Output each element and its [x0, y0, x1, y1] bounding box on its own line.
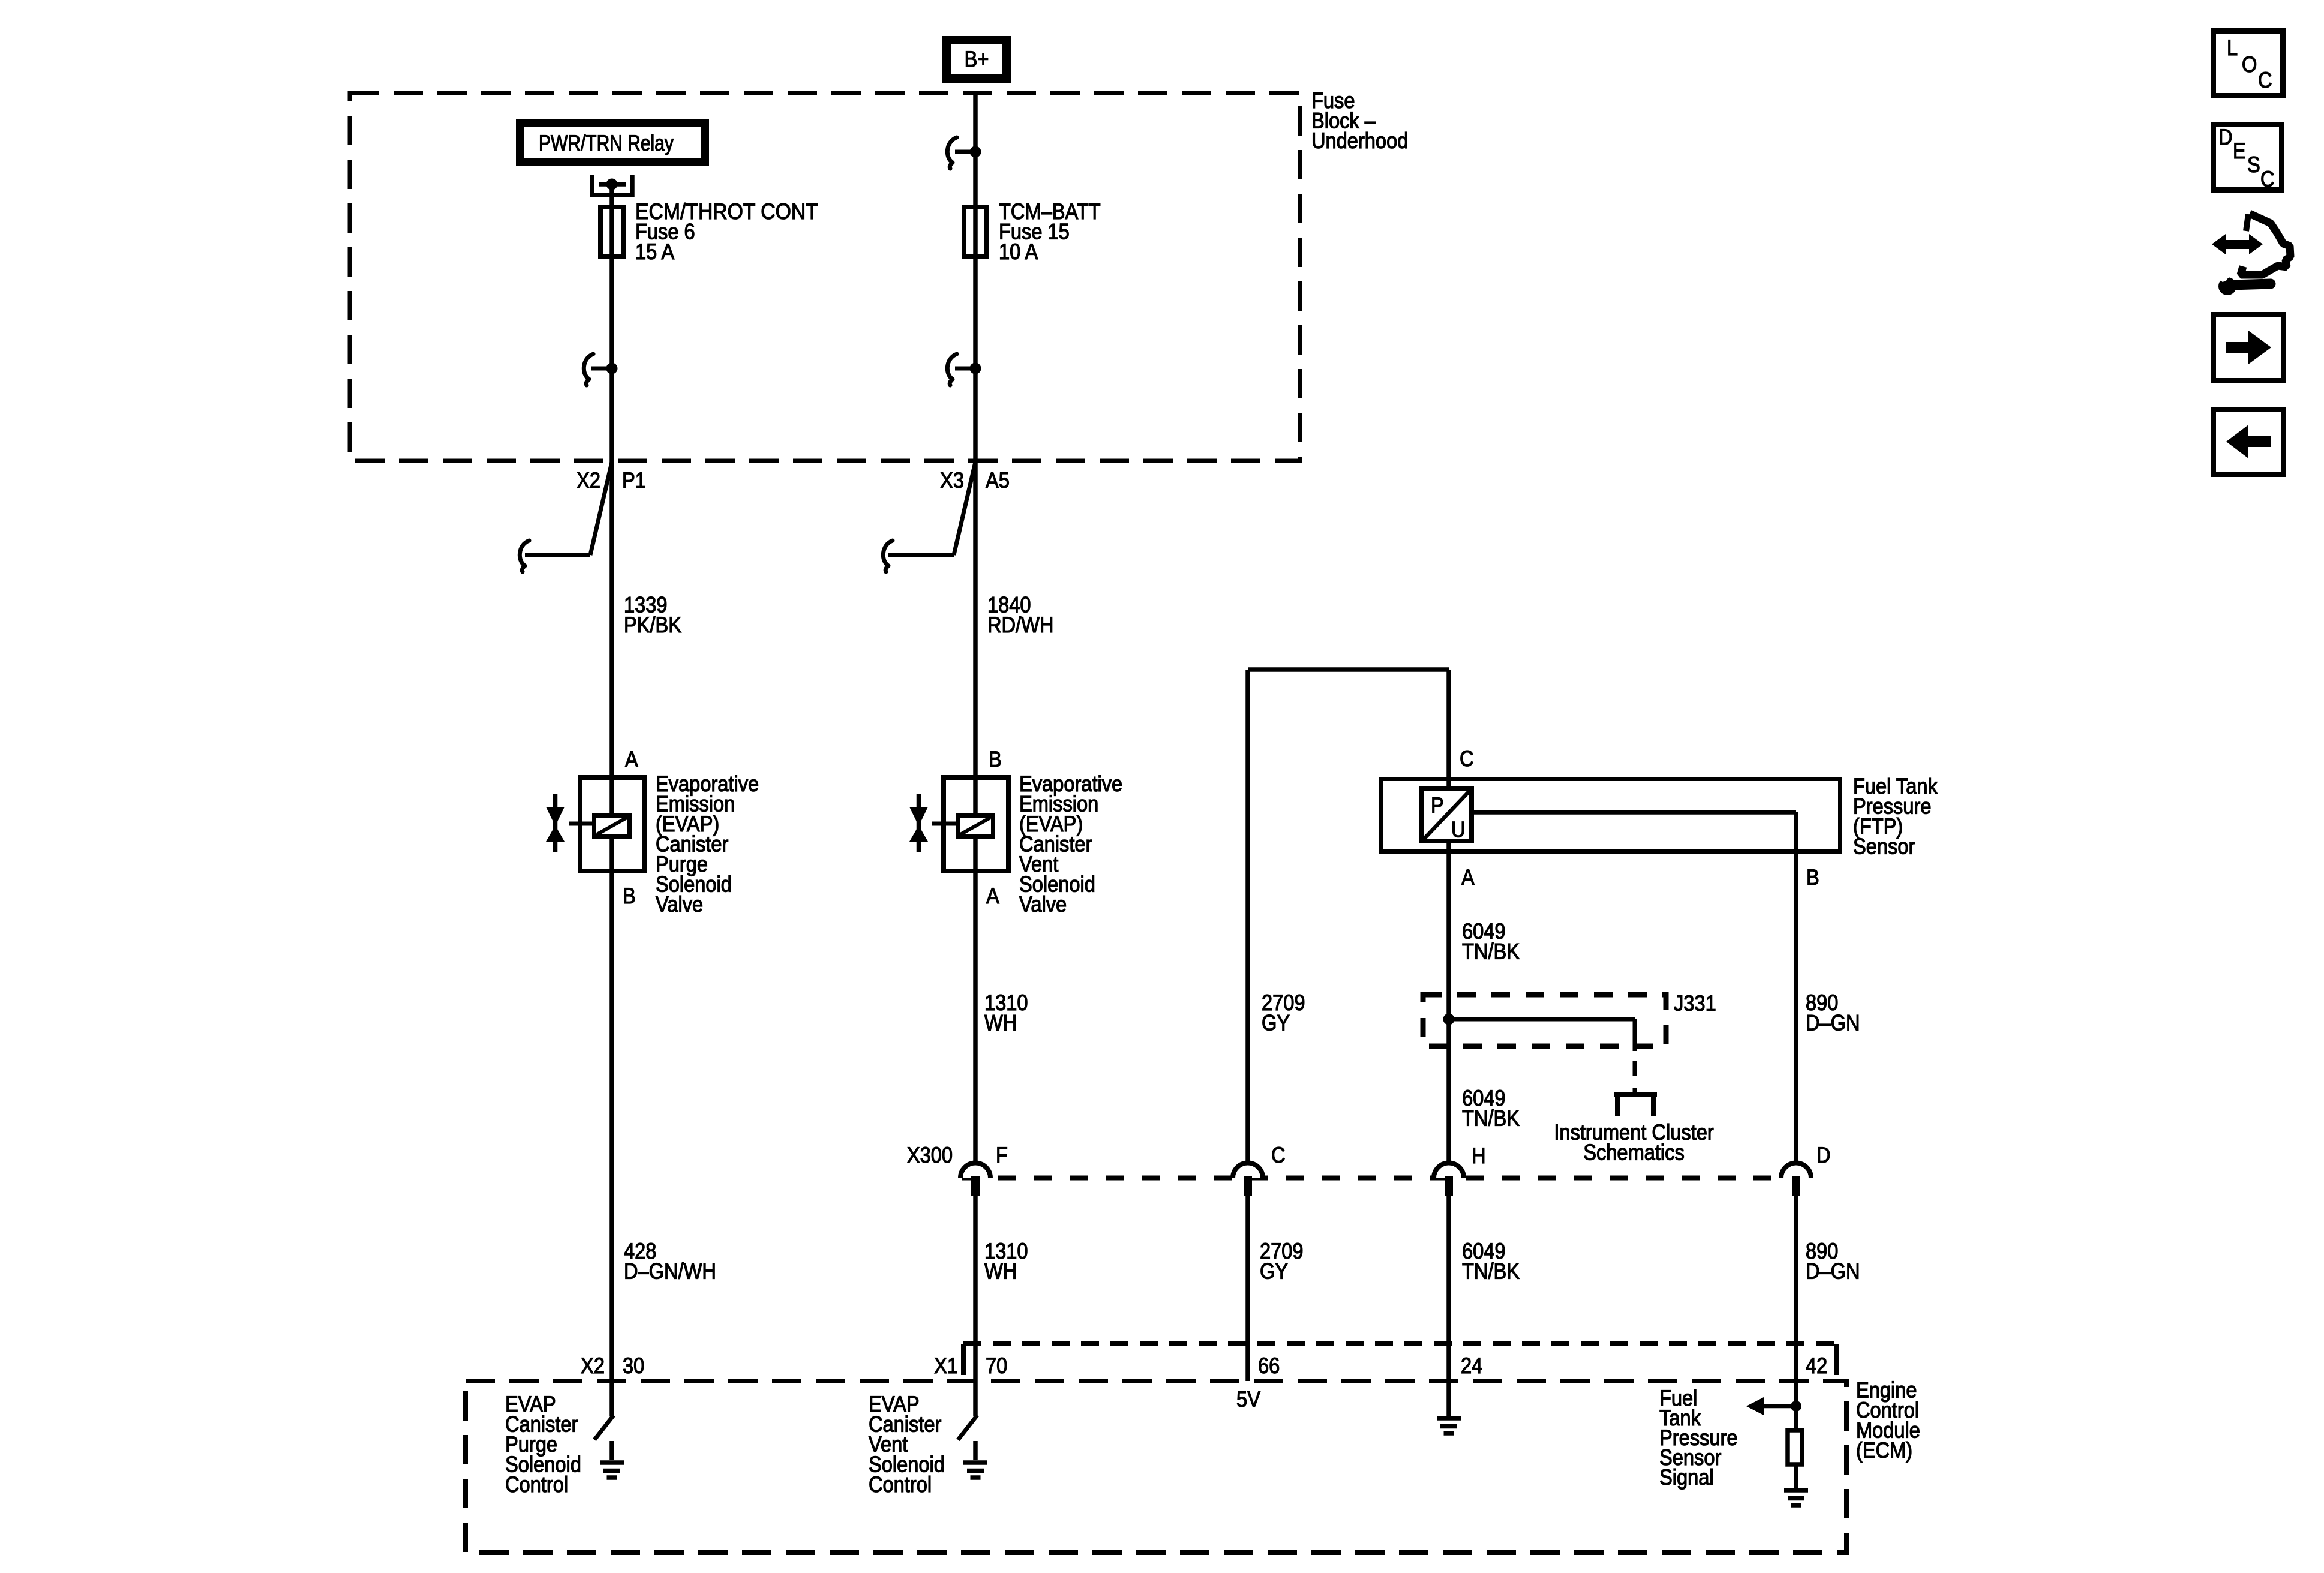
svg-text:H: H	[1472, 1143, 1486, 1169]
svg-text:O: O	[2242, 52, 2257, 77]
svg-text:PWR/TRN Relay: PWR/TRN Relay	[539, 131, 674, 156]
svg-text:GY: GY	[1262, 1010, 1290, 1035]
svg-text:A: A	[1461, 865, 1475, 890]
svg-text:J331: J331	[1674, 991, 1716, 1016]
svg-text:F: F	[996, 1143, 1008, 1168]
svg-text:B: B	[623, 884, 636, 909]
svg-text:L: L	[2227, 35, 2238, 61]
svg-text:Valve: Valve	[656, 892, 703, 917]
svg-text:70: 70	[986, 1353, 1007, 1379]
svg-text:A5: A5	[986, 468, 1010, 493]
svg-text:30: 30	[623, 1353, 644, 1379]
svg-text:C: C	[2258, 68, 2272, 93]
svg-text:5V: 5V	[1236, 1387, 1260, 1412]
svg-text:(ECM): (ECM)	[1856, 1438, 1912, 1463]
svg-text:15 A: 15 A	[635, 239, 675, 265]
svg-text:C: C	[1460, 746, 1474, 772]
svg-text:B+: B+	[965, 47, 989, 72]
svg-text:TN/BK: TN/BK	[1462, 1106, 1520, 1131]
svg-text:RD/WH: RD/WH	[987, 613, 1053, 638]
svg-text:Signal: Signal	[1659, 1465, 1714, 1490]
svg-text:Sensor: Sensor	[1853, 834, 1915, 859]
svg-text:B: B	[989, 747, 1002, 772]
svg-text:D–GN/WH: D–GN/WH	[624, 1259, 716, 1284]
svg-text:X3: X3	[940, 468, 964, 493]
svg-text:D–GN: D–GN	[1806, 1010, 1860, 1035]
svg-text:X300: X300	[907, 1143, 953, 1168]
svg-text:X2: X2	[581, 1353, 605, 1379]
svg-text:X1: X1	[934, 1353, 958, 1379]
svg-text:C: C	[1271, 1143, 1286, 1168]
svg-text:D: D	[2218, 125, 2233, 150]
svg-text:WH: WH	[984, 1010, 1017, 1035]
svg-text:Underhood: Underhood	[1311, 128, 1408, 154]
svg-text:A: A	[625, 747, 638, 772]
svg-text:U: U	[1451, 817, 1466, 842]
svg-text:TN/BK: TN/BK	[1462, 1259, 1520, 1284]
svg-text:42: 42	[1806, 1353, 1827, 1379]
svg-text:Control: Control	[869, 1472, 932, 1497]
svg-text:10 A: 10 A	[999, 239, 1038, 265]
svg-text:P1: P1	[622, 468, 646, 493]
svg-text:PK/BK: PK/BK	[624, 613, 682, 638]
svg-text:TN/BK: TN/BK	[1462, 939, 1520, 964]
svg-text:A: A	[986, 884, 999, 909]
svg-text:GY: GY	[1260, 1259, 1288, 1284]
svg-text:D–GN: D–GN	[1806, 1259, 1860, 1284]
svg-text:D: D	[1816, 1143, 1831, 1168]
svg-text:B: B	[1806, 865, 1819, 890]
svg-text:Schematics: Schematics	[1583, 1140, 1685, 1165]
svg-text:WH: WH	[984, 1259, 1017, 1284]
svg-text:E: E	[2233, 139, 2246, 164]
svg-text:C: C	[2260, 167, 2275, 192]
svg-text:66: 66	[1258, 1353, 1280, 1379]
svg-text:Valve: Valve	[1019, 892, 1067, 917]
svg-text:Control: Control	[505, 1472, 568, 1497]
svg-text:S: S	[2247, 152, 2260, 178]
svg-text:24: 24	[1461, 1353, 1482, 1379]
svg-text:P: P	[1431, 793, 1444, 818]
svg-text:X2: X2	[577, 468, 600, 493]
